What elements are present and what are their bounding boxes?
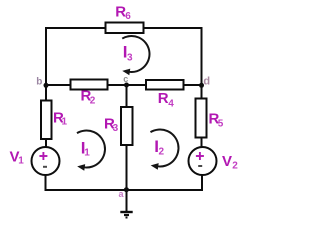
svg-text:3: 3: [113, 123, 119, 134]
svg-text:2: 2: [159, 147, 165, 158]
wire top-left segment: [45, 27, 106, 29]
ground stub wire: [126, 190, 128, 211]
resistor R5: [196, 99, 207, 138]
wire middle horizontal R2 to R4: [107, 84, 147, 86]
svg-text:1: 1: [18, 156, 24, 167]
svg-text:1: 1: [84, 147, 90, 158]
svg-text:c: c: [123, 74, 128, 84]
resistor R1: [41, 101, 52, 140]
ground symbol: [120, 211, 132, 213]
svg-text:4: 4: [168, 99, 174, 110]
node a: [124, 187, 129, 192]
loop arrow I2: [150, 129, 178, 166]
loop arrow I3: [122, 36, 149, 72]
node b: [44, 83, 49, 88]
wire middle horizontal R4 to d: [183, 84, 203, 86]
V2 plus sign: [196, 155, 204, 157]
wire right vertical below V2: [201, 175, 203, 192]
svg-text:2: 2: [90, 96, 96, 107]
resistor R2: [71, 80, 108, 90]
V1 minus sign: [43, 166, 47, 168]
loop arrow I1: [77, 130, 105, 167]
node d: [199, 83, 204, 88]
wire left vertical between R1 and V1: [45, 139, 47, 149]
wire left vertical below V1: [45, 175, 47, 192]
wire middle vertical c to R3: [126, 84, 128, 108]
wire left vertical upper: [45, 27, 47, 101]
V2 minus sign: [198, 165, 202, 167]
wire top-right segment: [143, 27, 203, 29]
svg-text:5: 5: [218, 119, 224, 130]
V1 plus sign: [39, 155, 47, 157]
wire bottom horizontal: [45, 189, 203, 191]
wire middle vertical R3 to a: [126, 145, 128, 191]
wire right vertical between R5 and V2: [201, 137, 203, 148]
resistor R4: [146, 80, 184, 90]
svg-text:R: R: [158, 90, 169, 107]
wire middle horizontal b to R2: [45, 84, 72, 86]
resistor R6: [106, 23, 144, 34]
svg-text:b: b: [36, 76, 42, 87]
svg-text:V: V: [222, 153, 232, 170]
node c: [124, 83, 129, 88]
resistor R3: [121, 107, 133, 145]
svg-text:6: 6: [125, 11, 131, 22]
voltage source V2: [189, 147, 217, 175]
svg-text:2: 2: [232, 161, 238, 172]
svg-text:1: 1: [62, 117, 68, 128]
wire right vertical upper: [201, 27, 203, 99]
svg-text:d: d: [203, 76, 210, 88]
svg-text:3: 3: [127, 52, 133, 63]
voltage source V1: [32, 147, 60, 175]
